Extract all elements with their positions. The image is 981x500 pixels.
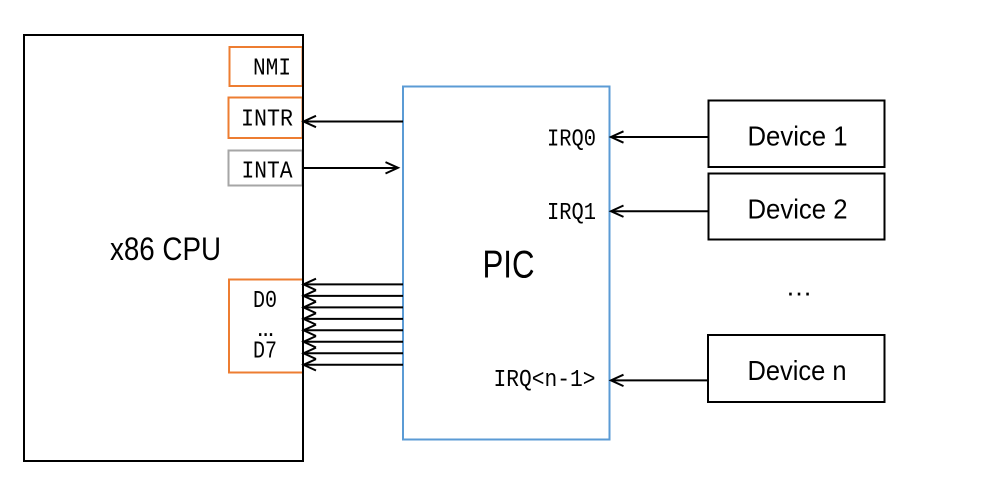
svg-text:IRQ0: IRQ0 <box>547 126 596 153</box>
svg-text:…: … <box>786 272 813 302</box>
svg-text:x86 CPU: x86 CPU <box>110 231 221 267</box>
svg-text:PIC: PIC <box>483 244 535 287</box>
svg-text:Device 1: Device 1 <box>748 120 848 151</box>
svg-text:Device n: Device n <box>748 355 847 386</box>
svg-text:INTA: INTA <box>242 159 294 186</box>
svg-text:D0: D0 <box>253 288 277 315</box>
svg-text:IRQ1: IRQ1 <box>547 200 596 227</box>
svg-text:IRQ<n-1>: IRQ<n-1> <box>494 367 596 394</box>
svg-text:NMI: NMI <box>253 56 291 83</box>
svg-text:Device 2: Device 2 <box>748 193 848 224</box>
svg-text:D7: D7 <box>253 339 277 366</box>
svg-text:INTR: INTR <box>241 106 293 133</box>
